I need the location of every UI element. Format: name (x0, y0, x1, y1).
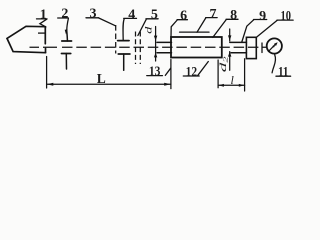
underline 10 (277, 19, 293, 21)
right support lower stem (123, 54, 125, 70)
svg-text:d2: d2 (218, 56, 230, 72)
arrowhead L right (164, 83, 171, 86)
svg-text:10: 10 (280, 9, 291, 24)
housing box (171, 37, 222, 58)
arrowhead l right (239, 84, 245, 87)
arrowhead d top (154, 36, 157, 41)
cover line above housing (180, 31, 209, 33)
svg-text:9: 9 (259, 9, 266, 24)
leader 7 (197, 18, 206, 32)
dimension L extension right (170, 60, 172, 89)
right support lower cap (118, 53, 130, 55)
svg-text:12: 12 (186, 65, 198, 80)
arrowhead d2 bottom (228, 52, 231, 57)
coupling dashed line C (139, 32, 141, 65)
bracket block 9 (246, 37, 256, 58)
leader 8 (213, 20, 226, 38)
coupling dashed line B (135, 32, 137, 65)
dial indicator needle (268, 43, 276, 51)
dimension l extension left (217, 60, 219, 88)
left support lower cap (62, 53, 71, 55)
dimension l line (218, 84, 245, 86)
motor pentagon body (7, 26, 46, 52)
underline 12 (183, 75, 199, 77)
svg-text:4: 4 (128, 7, 135, 22)
shaft left top line (157, 41, 172, 43)
underline 2 (58, 17, 69, 19)
leader 13 (165, 68, 170, 75)
dial indicator circle (267, 38, 282, 53)
arrowhead leader 2 (65, 29, 68, 34)
svg-text:7: 7 (210, 7, 217, 22)
centerline dashed main (62, 46, 266, 48)
leader 10 (257, 20, 278, 37)
leader 12 (198, 62, 209, 76)
leader 3 (99, 18, 116, 26)
shaft right top line (230, 41, 247, 43)
left support upper cap (62, 40, 72, 42)
motor pentagon right edge lower (45, 48, 47, 52)
end stop tick (261, 43, 263, 53)
underline 7 (206, 17, 217, 19)
dimension d line (155, 27, 157, 62)
leader 9 (242, 20, 254, 42)
arrowhead L left (47, 83, 54, 86)
right support upper cap (118, 40, 129, 42)
leader 2 (67, 18, 69, 30)
stub tick inside pentagon (38, 32, 45, 34)
underline 4 (124, 17, 137, 19)
dimension L line (47, 83, 171, 85)
svg-text:5: 5 (151, 8, 158, 23)
underline 8 (226, 18, 238, 20)
arrowhead l left (218, 84, 224, 87)
underline 11 (276, 75, 291, 77)
left support lower stem (65, 54, 67, 70)
svg-text:d: d (143, 26, 154, 34)
leader 1 (40, 19, 47, 27)
needle hub dot (273, 45, 275, 47)
dimension d2 line lower (229, 52, 231, 71)
underline 5 (146, 18, 158, 20)
leader 5 (138, 19, 146, 35)
coupling dashed line A (115, 25, 117, 54)
dimension l extension right (244, 59, 246, 91)
leader 4 (123, 19, 124, 40)
svg-text:13: 13 (149, 64, 161, 79)
svg-text:1: 1 (40, 7, 47, 22)
svg-text:2: 2 (61, 7, 68, 22)
centerline (30, 46, 58, 48)
needle arrowhead (274, 42, 278, 46)
shaft left bottom line (157, 52, 172, 54)
svg-text:3: 3 (90, 7, 97, 22)
shaft right bottom line (231, 52, 246, 54)
underline 1 (37, 18, 48, 20)
svg-text:11: 11 (278, 65, 289, 80)
motor pentagon right edge upper (44, 27, 46, 44)
arrowhead d2 top (228, 35, 231, 40)
underline 13 (147, 75, 163, 77)
arrowhead d bottom (154, 53, 157, 58)
dimension L extension left (46, 57, 48, 89)
underline 9 (254, 19, 267, 21)
svg-text:L: L (97, 71, 106, 86)
left support upper stem (66, 30, 69, 41)
leader 11 (272, 55, 275, 73)
svg-text:6: 6 (180, 8, 187, 23)
svg-text:8: 8 (230, 8, 237, 23)
underline 3 (86, 17, 99, 19)
dimension d2 line upper (229, 29, 231, 41)
leader 6 (171, 20, 177, 37)
underline 6 (177, 19, 187, 21)
